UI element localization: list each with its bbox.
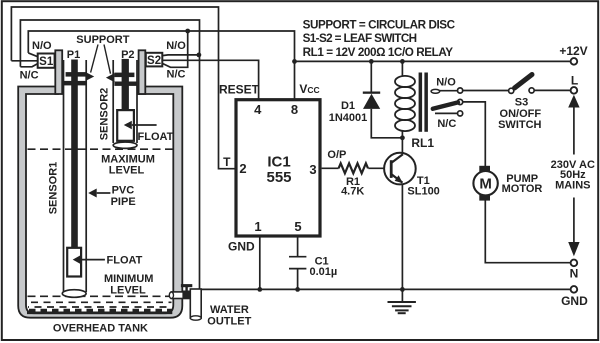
svg-text:GND: GND [561, 294, 588, 308]
svg-text:RL1 = 12V 200Ω 1C/O RELAY: RL1 = 12V 200Ω 1C/O RELAY [303, 46, 454, 59]
svg-text:P1: P1 [67, 49, 80, 61]
svg-text:MINIMUM: MINIMUM [104, 273, 154, 285]
svg-text:SUPPORT = CIRCULAR DISC: SUPPORT = CIRCULAR DISC [303, 18, 456, 31]
svg-text:+12V: +12V [559, 44, 587, 58]
svg-text:N: N [570, 266, 579, 280]
svg-text:555: 555 [266, 169, 291, 186]
svg-text:PVC: PVC [112, 184, 135, 196]
svg-text:OVERHEAD TANK: OVERHEAD TANK [53, 323, 148, 335]
svg-text:8: 8 [291, 102, 298, 117]
svg-text:N/C: N/C [437, 118, 456, 130]
svg-text:N/O: N/O [32, 40, 52, 52]
svg-text:4: 4 [254, 102, 262, 117]
svg-text:4.7K: 4.7K [341, 185, 364, 197]
svg-text:P2: P2 [121, 49, 134, 61]
svg-text:RL1: RL1 [411, 136, 434, 150]
svg-text:FLOAT: FLOAT [107, 255, 143, 267]
svg-text:SENSOR2: SENSOR2 [99, 88, 111, 141]
svg-text:WATER: WATER [210, 304, 249, 316]
svg-text:S3: S3 [515, 97, 528, 109]
svg-text:N/O: N/O [436, 76, 456, 88]
svg-text:IC1: IC1 [267, 153, 290, 170]
svg-text:LEVEL: LEVEL [109, 165, 145, 177]
svg-text:SL100: SL100 [407, 186, 439, 198]
svg-text:MOTOR: MOTOR [502, 183, 543, 195]
svg-text:N/O: N/O [166, 40, 186, 52]
svg-text:PIPE: PIPE [111, 196, 136, 208]
svg-text:MAINS: MAINS [555, 179, 590, 191]
svg-text:0.01µ: 0.01µ [310, 266, 338, 278]
svg-text:OUTLET: OUTLET [207, 316, 251, 328]
svg-text:S1: S1 [39, 56, 54, 68]
svg-text:VCC: VCC [299, 82, 319, 96]
svg-text:2: 2 [239, 161, 246, 176]
svg-text:T: T [223, 155, 231, 169]
svg-text:SENSOR1: SENSOR1 [48, 162, 60, 215]
svg-text:3: 3 [309, 162, 316, 177]
svg-text:RESET: RESET [219, 83, 260, 97]
svg-text:5: 5 [294, 219, 301, 234]
svg-text:O/P: O/P [327, 149, 346, 161]
svg-text:L: L [571, 74, 578, 88]
svg-text:LEVEL: LEVEL [110, 284, 146, 296]
svg-text:S1-S2 = LEAF SWITCH: S1-S2 = LEAF SWITCH [303, 32, 418, 45]
svg-text:SWITCH: SWITCH [498, 119, 541, 131]
svg-text:N/C: N/C [20, 70, 39, 82]
svg-text:D1: D1 [341, 100, 355, 112]
svg-text:S2: S2 [147, 55, 161, 67]
svg-text:N/C: N/C [167, 69, 186, 81]
svg-text:M: M [479, 176, 492, 193]
svg-text:SUPPORT: SUPPORT [76, 34, 129, 46]
svg-text:1: 1 [254, 219, 261, 234]
svg-text:1N4001: 1N4001 [329, 112, 368, 124]
svg-text:GND: GND [228, 239, 255, 253]
svg-text:FLOAT: FLOAT [138, 131, 174, 143]
